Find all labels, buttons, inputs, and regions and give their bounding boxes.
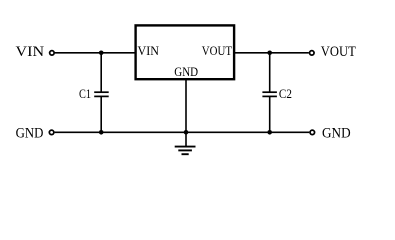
- wire regulator GND pin: [185, 79, 187, 146]
- ground rail wire: [55, 131, 310, 133]
- wire junction to C1: [100, 53, 102, 92]
- junction VOUT/C2: [267, 51, 272, 56]
- wire C1 to ground rail: [100, 96, 102, 132]
- svg-text:C2: C2: [279, 87, 292, 101]
- svg-text:VOUT: VOUT: [202, 44, 233, 58]
- wire junction to C2: [269, 53, 271, 92]
- capacitor C2: [262, 92, 277, 96]
- capacitor C1: [94, 92, 109, 96]
- wire regulator to VOUT terminal: [234, 52, 309, 54]
- junction C2/ground rail: [267, 130, 272, 135]
- svg-text:VIN: VIN: [16, 44, 45, 60]
- wire VIN terminal to regulator: [55, 52, 136, 54]
- svg-text:GND: GND: [322, 125, 351, 141]
- ground: [175, 147, 196, 155]
- junction GND pin/ground rail: [184, 130, 189, 135]
- junction VIN/C1: [99, 51, 104, 56]
- terminal VIN: [50, 51, 55, 56]
- terminal GND left: [49, 130, 54, 135]
- terminal GND right: [310, 130, 315, 135]
- svg-text:VOUT: VOUT: [321, 44, 356, 60]
- junction C1/ground rail: [99, 130, 104, 135]
- wire C2 to ground rail: [269, 96, 271, 132]
- svg-text:GND: GND: [16, 125, 44, 141]
- svg-text:VIN: VIN: [138, 44, 159, 58]
- terminal VOUT: [310, 51, 315, 56]
- svg-text:GND: GND: [174, 65, 198, 79]
- regulator U1: [136, 25, 235, 79]
- svg-text:C1: C1: [79, 87, 91, 101]
